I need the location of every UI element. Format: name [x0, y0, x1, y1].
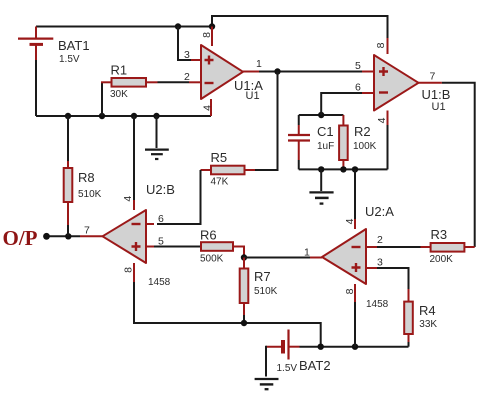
wire U2:B pin4 up to bus	[133, 116, 135, 200]
pin number 2 (U2:A)	[377, 234, 383, 246]
battery BAT1 bottom lead	[35, 44, 37, 60]
node junction dot at (277.5,71.5)	[274, 68, 280, 74]
svg-text:8: 8	[375, 42, 387, 48]
svg-text:47K: 47K	[211, 177, 229, 188]
pin number 5 (U1:B)	[355, 60, 361, 72]
pin U1:B pin7 output red stub	[419, 82, 442, 84]
svg-text:BAT1: BAT1	[58, 38, 90, 53]
svg-text:33K: 33K	[419, 319, 437, 330]
pin number 7 (U1:B)	[430, 71, 436, 83]
node junction dot at (155.5,116)	[153, 113, 159, 119]
wire R5 left down to U2:B pin6	[157, 170, 201, 224]
pin U2:B pin6 red stub	[146, 223, 154, 225]
node junction dot at (244,257.5)	[241, 254, 247, 260]
label R2	[354, 124, 371, 139]
svg-text:1: 1	[256, 58, 262, 70]
svg-text:4: 4	[202, 105, 214, 111]
svg-text:6: 6	[355, 82, 361, 94]
pin number 1 (U1:A out)	[256, 58, 262, 70]
pin number 8 (U1:A, rotated)	[201, 32, 213, 38]
node junction dot at (134,116)	[131, 113, 137, 119]
wire C1/R2 bottom link y=169.4	[299, 168, 388, 170]
svg-text:R4: R4	[419, 303, 436, 318]
pin U1:B pin6 red stub	[362, 92, 374, 94]
wire U2:A pin8 down to bottom rail	[354, 302, 356, 347]
wire top bus y=26 from BAT1 to U1:A pin8 node	[36, 26, 212, 28]
svg-text:U1: U1	[432, 101, 446, 113]
wire R8 bottom vertical	[67, 225, 69, 236]
node junction dot at (320.6,115)	[318, 112, 324, 118]
ground symbol G2 below BAT2	[255, 379, 279, 389]
value 1.5V (BAT2)	[277, 363, 298, 374]
label R6	[200, 228, 217, 243]
resistor R2 body	[339, 126, 348, 161]
svg-text:2: 2	[184, 71, 190, 83]
wire topmost y=16 from node above U1:A to U1:B pin8	[212, 16, 388, 38]
pin number 6 (U1:B)	[355, 82, 361, 94]
pin U2:A pin3 red stub	[366, 267, 377, 269]
op-amp U1:B body	[374, 55, 419, 111]
pin number 3 (U2:A)	[377, 257, 383, 269]
pin number 4 (U1:A, rotated)	[202, 105, 214, 111]
label U1 (under U1:B)	[432, 101, 446, 113]
node junction dot at (102,116)	[99, 113, 105, 119]
wire U1:B output right and down to R3	[442, 83, 475, 247]
wire U2:A pin3 to R4	[377, 268, 409, 289]
op-amp U2:B plus symbol	[132, 242, 141, 251]
svg-text:4: 4	[122, 196, 134, 202]
pin R6 right red stub and corner down	[233, 247, 244, 258]
pin U1:A output red stub	[243, 71, 259, 73]
value 1458 (U2:B)	[148, 277, 171, 288]
pin R3 right red stub	[464, 246, 474, 248]
svg-text:U1:B: U1:B	[422, 87, 451, 102]
pin BAT2 right lead red	[289, 346, 300, 348]
value 47K (R5)	[211, 177, 229, 188]
svg-text:R6: R6	[200, 228, 217, 243]
svg-text:4: 4	[376, 117, 388, 123]
pin U1:A pin4 red stub	[210, 99, 212, 116]
wire U1:A output to U1:B pin5	[259, 71, 362, 73]
label R8	[78, 170, 95, 185]
wire R1 to U1:A pin2	[158, 81, 190, 83]
node junction dot at (212,26)	[209, 23, 215, 29]
node junction dot at (355,347)	[352, 344, 358, 350]
pin number 3 (U1:A)	[184, 49, 190, 61]
svg-text:7: 7	[84, 225, 90, 237]
op-amp U2:A plus symbol	[352, 263, 361, 272]
pin U1:A pin3 red stub	[191, 59, 201, 61]
svg-text:U2:A: U2:A	[365, 204, 394, 219]
resistor R1 body	[112, 78, 147, 87]
pin U2:B pin5 red stub	[146, 246, 154, 248]
pin R1 right red stub	[146, 81, 158, 83]
label U1:B	[422, 87, 451, 102]
pin number 4 (U2:A, rotated)	[344, 218, 356, 224]
op-amp U1:B plus symbol	[379, 67, 388, 76]
node junction dot at (244,323)	[241, 320, 247, 326]
svg-text:8: 8	[122, 267, 134, 273]
value 1.5V (BAT1)	[59, 54, 80, 65]
pin number 5 (U2:B)	[158, 236, 164, 248]
svg-text:C1: C1	[317, 124, 334, 139]
wire U1:A pin3 branch	[178, 27, 191, 61]
pin number 7 (U2:B)	[84, 225, 90, 237]
pin number 8 (U2:B, rotated)	[122, 267, 134, 273]
op-amp U2:A minus symbol	[352, 246, 361, 248]
wire from top link up to U1:B pin6	[321, 93, 362, 115]
label BAT1	[58, 38, 90, 53]
wire U2:B pin8 down and right to BAT2 node	[134, 282, 321, 347]
wire left bus y=116	[36, 115, 211, 117]
pin R2 bottom red stub	[342, 160, 344, 169]
label R5	[211, 150, 228, 165]
svg-text:R5: R5	[211, 150, 228, 165]
pin R2 top red stub	[342, 115, 344, 126]
label U1 (under U1:A)	[246, 90, 260, 102]
op-amp U1:B minus symbol	[379, 91, 388, 93]
pin U1:B pin5 red stub	[362, 71, 374, 73]
pin U2:A pin8 red stub	[354, 284, 356, 302]
value 500K (R6)	[200, 254, 224, 265]
svg-text:3: 3	[377, 257, 383, 269]
label C1	[317, 124, 334, 139]
pin R8 bottom red stub	[67, 202, 69, 225]
svg-text:R7: R7	[254, 269, 271, 284]
svg-text:100K: 100K	[353, 141, 377, 152]
capacitor C1 top lead	[298, 115, 300, 125]
pin number 4 (U1:B, rotated)	[376, 117, 388, 123]
resistor R5 body	[211, 166, 245, 175]
capacitor C1 plates	[288, 135, 310, 141]
svg-text:O/P: O/P	[3, 226, 38, 250]
node junction dot at (178,26)	[175, 23, 181, 29]
wire U1:B pin4 down to bottom link	[387, 125, 389, 169]
label O/P	[3, 226, 38, 250]
wire bottom rail BAT2 to R4	[300, 346, 409, 348]
svg-text:R2: R2	[354, 124, 371, 139]
pin U2:B pin8 red stub	[133, 263, 135, 282]
battery BAT2 negative plate (short thick, left)	[281, 340, 285, 354]
node junction dot at (68,116)	[65, 113, 71, 119]
svg-text:6: 6	[158, 213, 164, 225]
pin U2:A pin2 red stub	[366, 246, 377, 248]
battery BAT2 positive plate (long, right)	[287, 330, 289, 360]
pin number 6 (U2:B)	[158, 213, 164, 225]
label R1	[111, 63, 128, 78]
pin U2:B pin4 stub	[133, 200, 135, 210]
pin R4 top red stub	[408, 289, 410, 302]
svg-text:U2:B: U2:B	[146, 182, 175, 197]
wire C1 bottom lead	[298, 160, 300, 169]
svg-text:2: 2	[377, 234, 383, 246]
wire R7 bottom to bottom rail	[243, 315, 245, 323]
pin R7 bottom red stub	[243, 303, 245, 315]
wire BAT2 left lead	[266, 347, 283, 377]
wire from R6/R7 node to U2:A pin1	[244, 257, 310, 259]
svg-text:30K: 30K	[110, 89, 128, 100]
svg-text:1.5V: 1.5V	[277, 363, 298, 374]
wire feedback vertical from output node down to R5	[255, 72, 278, 171]
op-amp U2:B minus symbol	[132, 223, 141, 225]
node junction dot at (68,236)	[65, 233, 71, 239]
svg-text:500K: 500K	[200, 254, 224, 265]
svg-text:8: 8	[344, 288, 356, 294]
value 510K (R7)	[254, 286, 278, 297]
svg-text:200K: 200K	[430, 254, 454, 265]
svg-text:1458: 1458	[366, 299, 389, 310]
node junction dot at (355,169.4)	[352, 166, 358, 172]
svg-text:510K: 510K	[78, 189, 102, 200]
svg-text:1.5V: 1.5V	[59, 54, 80, 65]
svg-text:510K: 510K	[254, 286, 278, 297]
pin R5 right red stub	[245, 169, 256, 171]
pin number 1 (U2:A)	[304, 247, 310, 259]
pin U2:A pin1 red stub	[310, 257, 322, 259]
svg-text:R3: R3	[431, 227, 448, 242]
op-amp U1:A plus symbol	[205, 56, 214, 65]
resistor R3 body	[431, 243, 465, 252]
resistor R8 body	[64, 168, 73, 202]
value 510K (R8)	[78, 189, 102, 200]
label R3	[431, 227, 448, 242]
resistor R4 body	[404, 302, 413, 334]
wire C1/R2 top link y=115	[299, 114, 344, 116]
pin R1 left red stub	[101, 81, 112, 83]
battery BAT1 positive plate	[18, 37, 53, 39]
resistor R7 body	[240, 269, 249, 304]
wire U2:B pin5 to R6	[154, 246, 201, 248]
label R4	[419, 303, 436, 318]
svg-text:U1: U1	[246, 90, 260, 102]
capacitor C1 bottom lead red	[298, 141, 300, 160]
svg-text:5: 5	[355, 60, 361, 72]
svg-text:8: 8	[201, 32, 213, 38]
ground symbol G1 below bus	[145, 116, 169, 159]
svg-text:1uF: 1uF	[317, 141, 334, 152]
pin number 4 (U2:B, rotated)	[122, 196, 134, 202]
op-amp U1:A body	[201, 45, 243, 99]
label BAT2	[299, 358, 331, 373]
op-amp U1:A minus symbol	[205, 82, 214, 84]
label U2:A	[365, 204, 394, 219]
node junction dot at (343.4,169.4)	[340, 166, 346, 172]
wire U2:A pin2 to R3	[377, 246, 431, 248]
wire R8 top vertical	[67, 116, 69, 161]
svg-text:7: 7	[430, 71, 436, 83]
op-amp U2:B body (points left)	[103, 210, 147, 263]
pin R8 top red stub	[67, 161, 69, 168]
pin U2:B pin7 output red stub	[80, 235, 103, 237]
battery BAT1 negative plate	[30, 43, 44, 46]
op-amp U2:A body (points left)	[322, 229, 366, 284]
svg-text:1: 1	[304, 247, 310, 259]
node junction dot at (322,347)	[318, 344, 324, 350]
svg-text:BAT2: BAT2	[299, 358, 331, 373]
value 1458 (U2:A)	[366, 299, 389, 310]
pin number 8 (U1:B, rotated)	[375, 42, 387, 48]
svg-text:R1: R1	[111, 63, 128, 78]
node junction dot at (320.6,169.4)	[318, 166, 324, 172]
pin U1:B pin4 red stub	[387, 111, 389, 126]
wire output node O/P	[47, 235, 81, 237]
wire U2:A pin4 up to C1/R2 bottom link	[354, 169, 356, 219]
pin U1:A pin8 red stub	[211, 27, 213, 47]
svg-text:1458: 1458	[148, 277, 171, 288]
ground symbol G3 below C1/R2 link	[309, 169, 333, 203]
pin number 8 (U2:A, rotated)	[344, 288, 356, 294]
value 100K (R2)	[353, 141, 377, 152]
pin U1:A pin2 red stub	[189, 81, 201, 83]
wire R1 left vertical	[101, 82, 103, 116]
capacitor C1 top lead red	[298, 125, 300, 134]
label U1:A	[234, 78, 263, 93]
pin R5 left red stub	[201, 169, 212, 171]
pin U2:A pin4 red stub	[354, 219, 356, 229]
pin number 2 (U1:A)	[184, 71, 190, 83]
resistor R6 body	[201, 242, 233, 251]
wire R4 bottom to bottom rail	[408, 342, 410, 347]
pin R4 bottom red stub	[408, 334, 410, 342]
svg-text:R8: R8	[78, 170, 95, 185]
value 33K (R4)	[419, 319, 437, 330]
pin R7 top red stub	[243, 258, 245, 269]
wire BAT1 down to left bus	[35, 60, 37, 116]
svg-text:3: 3	[184, 49, 190, 61]
value 30K (R1)	[110, 89, 128, 100]
label R7	[254, 269, 271, 284]
pin U1:B pin8 red stub	[387, 38, 389, 54]
value 1uF (C1)	[317, 141, 334, 152]
label U2:B	[146, 182, 175, 197]
value 200K (R3)	[430, 254, 454, 265]
node terminal dot at (48,236)	[43, 233, 50, 240]
svg-text:4: 4	[344, 218, 356, 224]
battery BAT1 top lead	[35, 27, 37, 39]
